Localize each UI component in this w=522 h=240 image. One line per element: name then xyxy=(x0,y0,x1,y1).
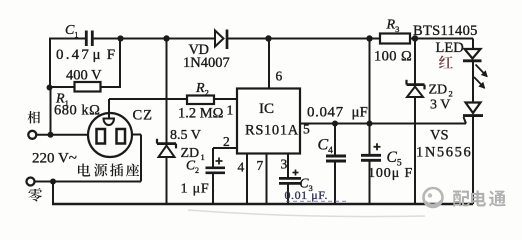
svg-text:CZ: CZ xyxy=(133,108,154,124)
svg-text:LED: LED xyxy=(436,40,464,56)
svg-text:2: 2 xyxy=(223,134,230,149)
svg-text:μ F: μ F xyxy=(93,47,117,63)
svg-text:3 V: 3 V xyxy=(430,98,450,113)
svg-text:680 kΩ: 680 kΩ xyxy=(54,103,100,119)
svg-text:BTS11405: BTS11405 xyxy=(413,23,478,39)
svg-text:RS101A: RS101A xyxy=(245,123,299,139)
svg-text:8.5 V: 8.5 V xyxy=(170,128,201,143)
svg-text:IC: IC xyxy=(259,101,274,117)
svg-text:100 Ω: 100 Ω xyxy=(374,49,412,65)
svg-text:1N5656: 1N5656 xyxy=(416,145,472,161)
svg-text:1: 1 xyxy=(227,103,234,118)
svg-text:6: 6 xyxy=(276,69,283,84)
svg-text:ZD: ZD xyxy=(429,83,448,98)
svg-text:4: 4 xyxy=(238,160,245,175)
svg-text:400 V: 400 V xyxy=(66,68,102,84)
svg-text:1: 1 xyxy=(201,152,205,162)
svg-text:0.047: 0.047 xyxy=(307,105,344,121)
svg-text:3: 3 xyxy=(281,157,288,172)
svg-text:100μ F: 100μ F xyxy=(368,166,413,181)
svg-text:0.47: 0.47 xyxy=(56,47,91,63)
svg-text:VS: VS xyxy=(430,128,449,144)
svg-text:μF: μF xyxy=(352,105,368,121)
svg-text:7: 7 xyxy=(257,158,264,173)
svg-text:1 μF: 1 μF xyxy=(181,182,210,197)
svg-text:1N4007: 1N4007 xyxy=(183,55,230,71)
svg-text:1.2 MΩ: 1.2 MΩ xyxy=(178,106,224,122)
svg-text:220 V~: 220 V~ xyxy=(32,151,77,167)
svg-text:5: 5 xyxy=(303,122,310,137)
svg-text:0.01 μF.: 0.01 μF. xyxy=(285,188,329,202)
